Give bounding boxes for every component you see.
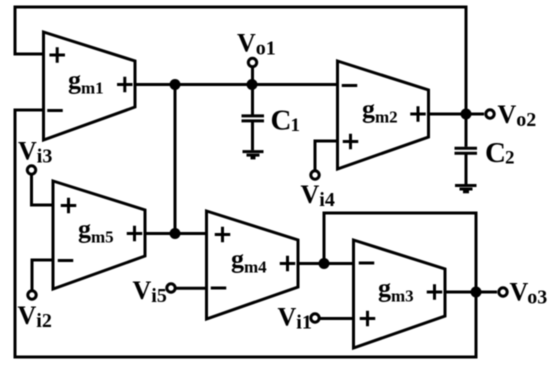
svg-text:Vo3: Vo3 — [510, 278, 548, 309]
svg-text:Vo2: Vo2 — [498, 100, 537, 131]
svg-text:C1: C1 — [271, 105, 300, 137]
svg-text:Vi3: Vi3 — [18, 137, 52, 168]
svg-text:C2: C2 — [485, 137, 514, 169]
svg-text:Vi1: Vi1 — [278, 302, 312, 333]
svg-text:Vi5: Vi5 — [133, 276, 167, 307]
svg-text:Vi2: Vi2 — [18, 301, 52, 332]
svg-text:Vo1: Vo1 — [237, 28, 276, 59]
svg-text:Vi4: Vi4 — [301, 180, 335, 211]
